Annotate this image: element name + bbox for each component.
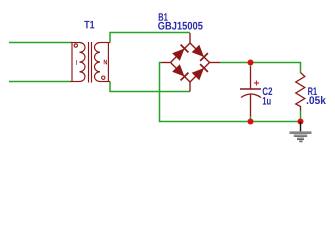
T1 primary phase dot	[74, 44, 77, 47]
ground bar 3	[297, 138, 304, 139]
B1 diode bottom-right	[192, 64, 208, 80]
T1 secondary winding	[95, 43, 101, 82]
T1 right terminal stub top	[100, 42, 110, 44]
wire secondary top to bridge	[110, 33, 190, 43]
ground	[290, 122, 312, 143]
B1 top pin stub	[189, 33, 191, 44]
ground bar 1	[290, 131, 312, 132]
B1 diode bottom-left	[172, 64, 188, 80]
C2 bottom plate arc	[241, 94, 261, 98]
B1 diamond outline	[171, 43, 210, 82]
label GBJ15005	[158, 22, 203, 30]
wire bridge minus to bottom rail	[160, 63, 301, 122]
C2 top plate	[240, 88, 261, 90]
C2 plus sign	[254, 81, 259, 86]
wire C2 top stub	[250, 63, 252, 68]
junction dot bottom rail R1/ground	[298, 119, 304, 125]
ground bar 2	[294, 134, 307, 135]
bridge B1	[161, 33, 220, 92]
label C2 value 1u	[263, 97, 271, 105]
B1 diode top-right	[192, 45, 208, 61]
wire bridge plus rail	[220, 63, 301, 73]
label T1	[84, 21, 94, 29]
label R1	[308, 87, 317, 95]
T1 left terminal stub bottom	[71, 81, 80, 83]
label C2	[263, 87, 273, 95]
T1 right terminal stub bottom	[100, 81, 110, 83]
junction dot bottom rail C2	[248, 119, 254, 125]
B1 left pin stub	[161, 62, 171, 64]
ground stem	[300, 122, 302, 133]
wire R1 bottom lead	[300, 111, 302, 122]
B1 right pin stub	[210, 62, 221, 64]
ground bar 4	[299, 140, 302, 142]
T1 secondary phase dot	[102, 76, 105, 79]
wire primary top	[9, 42, 71, 44]
junction dot plus rail C2	[248, 60, 254, 66]
C2 top lead	[250, 67, 252, 89]
T1 core line 1	[88, 42, 90, 83]
T1 secondary letter N	[104, 60, 107, 65]
label R1 value .05k	[307, 96, 326, 104]
T1 right terminal bar	[107, 43, 109, 82]
T1 core line 2	[91, 42, 93, 83]
T1 left terminal bar	[71, 43, 73, 82]
resistor R1	[296, 73, 305, 111]
T1 left terminal stub top	[71, 42, 80, 44]
B1 bottom pin stub	[189, 82, 191, 92]
wire primary bottom	[9, 81, 71, 83]
C2 bottom lead	[250, 94, 252, 116]
T1 primary winding	[80, 43, 86, 82]
label B1	[159, 13, 168, 21]
transformer T1	[71, 42, 111, 83]
wire secondary bottom to bridge	[110, 82, 190, 92]
capacitor C2	[240, 67, 261, 116]
wire C2 bottom stub	[250, 116, 252, 122]
B1 diode top-left	[172, 45, 188, 61]
T1 primary letter I	[75, 60, 78, 65]
